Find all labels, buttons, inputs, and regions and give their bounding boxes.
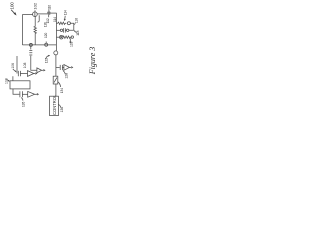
svg-text:Figure 3: Figure 3 xyxy=(88,47,97,75)
svg-text:110: 110 xyxy=(47,5,51,10)
svg-text:116: 116 xyxy=(43,22,47,27)
svg-text:126: 126 xyxy=(22,101,26,107)
svg-text:CONTROL: CONTROL xyxy=(52,94,57,115)
svg-text:102: 102 xyxy=(32,2,37,9)
svg-text:122: 122 xyxy=(45,58,49,64)
svg-text:114: 114 xyxy=(63,10,67,15)
svg-text:114: 114 xyxy=(53,17,57,22)
svg-text:118: 118 xyxy=(76,30,80,35)
svg-text:108: 108 xyxy=(23,63,27,69)
svg-text:100: 100 xyxy=(9,2,14,10)
svg-text:134: 134 xyxy=(60,88,64,94)
svg-text:136: 136 xyxy=(60,107,64,113)
svg-text:106: 106 xyxy=(11,63,15,69)
svg-text:104: 104 xyxy=(4,78,8,84)
svg-text:118: 118 xyxy=(69,41,73,47)
svg-text:128: 128 xyxy=(64,73,68,79)
svg-text:116: 116 xyxy=(74,18,78,24)
svg-text:120: 120 xyxy=(44,32,48,38)
